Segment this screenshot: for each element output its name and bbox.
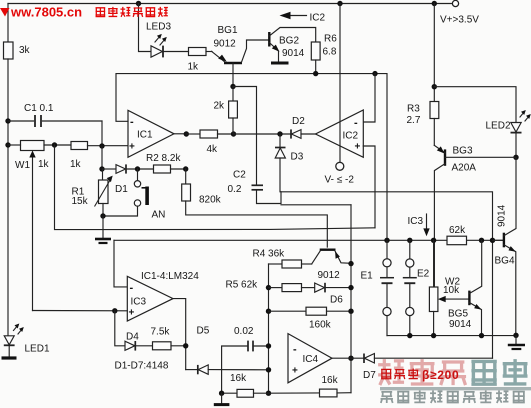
node 16k row ground bbox=[219, 391, 224, 396]
svg-text:+: + bbox=[129, 142, 135, 153]
resistor 2k bbox=[214, 87, 238, 135]
node ladder 311 bbox=[266, 309, 271, 314]
ground (LED1) bbox=[2, 356, 17, 359]
svg-text:3k: 3k bbox=[19, 45, 31, 56]
svg-text:2.7: 2.7 bbox=[407, 115, 421, 126]
node ladder IC4 plus bbox=[266, 367, 271, 372]
label D1-D7:4148 bbox=[115, 361, 169, 372]
node x8/W1 bbox=[5, 142, 10, 147]
svg-text:C2: C2 bbox=[233, 170, 246, 181]
svg-text:V- ≤ -2: V- ≤ -2 bbox=[325, 175, 355, 186]
transistor BG5 9014 bbox=[448, 240, 482, 335]
svg-text:160k: 160k bbox=[309, 320, 332, 331]
svg-text:E2: E2 bbox=[417, 269, 430, 280]
svg-text:W1: W1 bbox=[15, 160, 30, 171]
wire 820k column bbox=[185, 169, 187, 184]
node BG4 base wire bbox=[490, 238, 495, 243]
label IC2 arrow bbox=[280, 12, 326, 24]
wire mid rail y240 bbox=[114, 239, 504, 241]
wire x434 V+ to R3 bbox=[433, 4, 435, 102]
svg-text:+: + bbox=[355, 142, 361, 153]
wire IC2 plus input bbox=[363, 146, 375, 228]
op-amp IC4 bbox=[288, 334, 332, 383]
resistor R4 36k bbox=[253, 249, 312, 269]
label IC1-4:LM324 bbox=[141, 271, 199, 282]
transistor BG4 9014 bbox=[495, 157, 517, 335]
node R3 top / LED2 wire bbox=[432, 84, 437, 89]
node W2 top bbox=[431, 238, 436, 243]
node x8/C1 bbox=[5, 118, 10, 123]
transistor BG2 9014 bbox=[269, 28, 315, 64]
svg-text:IC1: IC1 bbox=[137, 130, 153, 141]
op-amp IC1 bbox=[128, 110, 174, 157]
node top rail junction IC2 V pin bbox=[337, 1, 342, 6]
resistor R 3k bbox=[4, 42, 31, 59]
resistor 16k right bbox=[269, 375, 352, 397]
node W1/1k junction bbox=[52, 142, 57, 147]
wire IC2 V pin vertical bbox=[339, 4, 341, 163]
node D1 row left bbox=[99, 166, 104, 171]
watermark big characters bbox=[378, 359, 466, 385]
ground (right rail) bbox=[508, 336, 525, 349]
svg-text:D4: D4 bbox=[126, 332, 139, 343]
svg-text:R2 8.2k: R2 8.2k bbox=[146, 153, 181, 164]
label IC3 arrow down bbox=[408, 214, 430, 236]
top V+ rail bbox=[8, 3, 455, 5]
svg-text:15k: 15k bbox=[72, 196, 89, 207]
node x351 D6 bbox=[348, 285, 353, 290]
node R1 bottom / ground bbox=[100, 213, 105, 218]
title www.7805.cn (red) bbox=[0, 5, 168, 20]
svg-text:IC2: IC2 bbox=[310, 13, 326, 24]
svg-text:9014: 9014 bbox=[449, 319, 472, 330]
svg-text:β≥200: β≥200 bbox=[422, 368, 459, 382]
node E1 top bbox=[384, 238, 389, 243]
resistor 16k left bbox=[230, 373, 269, 397]
svg-text:LED3: LED3 bbox=[146, 22, 171, 33]
node LED2/BG3 base bbox=[513, 155, 518, 160]
resistor R2 8.2k bbox=[146, 153, 186, 173]
node BG5 collector bbox=[479, 238, 484, 243]
wire C2 node to 9012 collector column bbox=[281, 204, 351, 206]
svg-text:D7: D7 bbox=[363, 370, 376, 381]
terminal V- bbox=[325, 162, 355, 185]
svg-text:IC3: IC3 bbox=[408, 216, 424, 227]
wire IC2 minus input bbox=[363, 74, 375, 122]
node R6 bottom bbox=[313, 71, 318, 76]
wire y240 left corner to IC3 minus bbox=[114, 240, 127, 287]
node IC1 plus / x102 bbox=[99, 143, 104, 148]
svg-text:D3: D3 bbox=[291, 152, 304, 163]
diode D5 bbox=[186, 326, 269, 375]
node IC4 output bbox=[348, 356, 353, 361]
node top rail junction R3 column bbox=[432, 1, 437, 6]
svg-text:R3: R3 bbox=[407, 104, 420, 115]
node 4k/2k bbox=[231, 131, 236, 136]
diode D1 bbox=[102, 164, 154, 195]
resistor R6 6.8 bbox=[311, 34, 337, 74]
node IC3 out / 7.5k bbox=[183, 343, 188, 348]
node AN top bbox=[135, 166, 140, 171]
wire 0.02 ground branch bbox=[222, 346, 248, 393]
label transistor beta>=200 (red) bbox=[381, 368, 459, 382]
wire W1 to 1k bbox=[44, 144, 71, 146]
svg-text:LED2: LED2 bbox=[486, 121, 511, 132]
ladder column x268 bbox=[268, 264, 270, 393]
svg-text:2k: 2k bbox=[214, 101, 226, 112]
resistor 62k (top) bbox=[447, 225, 467, 245]
node rail W2 bbox=[431, 333, 436, 338]
node IC2 minus column bbox=[372, 71, 377, 76]
svg-text:1k: 1k bbox=[38, 159, 50, 170]
resistor 160k bbox=[269, 307, 352, 330]
svg-text:0.02: 0.02 bbox=[234, 326, 254, 337]
wire IC1 minus input loop bbox=[116, 74, 387, 241]
svg-text:D5: D5 bbox=[197, 326, 210, 337]
resistor 1k (LED3) bbox=[188, 48, 213, 73]
wire D4 branch down bbox=[115, 311, 125, 346]
resistor 7.5k bbox=[151, 327, 186, 350]
capacitor C2 0.2 bbox=[228, 170, 282, 204]
resistor R1 15k adjustable bbox=[72, 169, 113, 216]
earphone E1 bbox=[361, 240, 395, 335]
resistor 1k (input) bbox=[70, 142, 88, 171]
bottom rail bbox=[387, 335, 516, 337]
wire D3/C2 node to BG4 base column bbox=[281, 192, 493, 358]
wire W1 row left bbox=[8, 144, 21, 146]
op-amp IC2 bbox=[316, 110, 364, 157]
svg-text:D1-D7:4148: D1-D7:4148 bbox=[115, 361, 169, 372]
svg-text:62k: 62k bbox=[449, 225, 466, 236]
svg-text:D1: D1 bbox=[115, 184, 128, 195]
svg-text:R4 36k: R4 36k bbox=[253, 249, 286, 260]
node x351 emitter bbox=[348, 261, 353, 266]
capacitor 0.02 bbox=[234, 326, 269, 351]
svg-text:IC2: IC2 bbox=[343, 131, 359, 142]
wire feedback rail y228 bbox=[55, 145, 376, 230]
node ladder 16k row bbox=[266, 391, 271, 396]
svg-text:16k: 16k bbox=[230, 373, 247, 384]
svg-text:IC4: IC4 bbox=[303, 354, 319, 365]
wire right ladder column x351 bbox=[350, 205, 352, 393]
terminal V+ bbox=[440, 0, 479, 25]
svg-text:-: - bbox=[293, 344, 297, 356]
diode D6 bbox=[315, 283, 351, 306]
wire IC4 output bbox=[332, 357, 364, 359]
svg-text:9012: 9012 bbox=[318, 270, 341, 281]
wire x102 down to D1 row bbox=[101, 146, 103, 169]
pushbutton AN bbox=[103, 169, 165, 221]
node ladder 288 bbox=[266, 285, 271, 290]
svg-text:R6: R6 bbox=[324, 34, 337, 45]
transistor BG3 A20A bbox=[434, 145, 516, 287]
resistor R3 2.7 bbox=[407, 102, 439, 146]
wire to LED2 bbox=[434, 87, 516, 123]
ground (16k row) bbox=[214, 393, 230, 404]
svg-text:+: + bbox=[129, 308, 135, 319]
svg-text:ww.7805.cn: ww.7805.cn bbox=[10, 5, 82, 20]
node R2/820k bbox=[183, 166, 188, 171]
svg-text:820k: 820k bbox=[199, 195, 222, 206]
node top rail junction LED3 bbox=[136, 1, 141, 6]
earphone E2 bbox=[403, 240, 430, 335]
wire W1 wiper to IC3 plus bbox=[33, 310, 128, 312]
svg-text:R5 62k: R5 62k bbox=[226, 280, 259, 291]
watermark underline bbox=[380, 387, 531, 390]
wire 16k feedback row bbox=[222, 392, 237, 394]
wire 4k node to D2 bbox=[234, 133, 292, 135]
wire BG4 base bbox=[493, 239, 504, 241]
node BG1 base/2k bbox=[230, 84, 235, 89]
svg-text:BG3: BG3 bbox=[453, 146, 473, 157]
svg-text:9014: 9014 bbox=[282, 48, 305, 59]
diode D7 bbox=[363, 354, 493, 382]
svg-text:9012: 9012 bbox=[214, 39, 237, 50]
capacitor C1 0.1 bbox=[8, 103, 102, 127]
svg-text:10k: 10k bbox=[443, 285, 460, 296]
svg-text:-: - bbox=[354, 117, 358, 129]
svg-text:BG5: BG5 bbox=[448, 309, 468, 320]
LED2 bbox=[486, 110, 531, 157]
svg-text:1k: 1k bbox=[70, 159, 82, 170]
transistor BG1 9012 bbox=[212, 25, 269, 87]
svg-text:IC1-4:LM324: IC1-4:LM324 bbox=[141, 271, 199, 282]
wire left column x8 top bbox=[7, 4, 9, 43]
potentiometer W2 10k bbox=[429, 240, 468, 335]
resistor 4k bbox=[186, 130, 234, 155]
wire IC1 output bbox=[174, 133, 186, 135]
node rail BG4 bbox=[513, 333, 518, 338]
svg-text:V+>3.5V: V+>3.5V bbox=[440, 15, 479, 26]
wire C1 to IC1+ corner bbox=[101, 121, 103, 147]
svg-text:IC3: IC3 bbox=[131, 297, 147, 308]
resistor R5 62k bbox=[226, 280, 315, 292]
transistor 9012 (mid) bbox=[312, 250, 351, 281]
svg-text:-: - bbox=[130, 282, 134, 294]
svg-text:+: + bbox=[292, 366, 298, 377]
potentiometer W1 1k bbox=[15, 141, 50, 311]
wire 1k to IC1 plus input bbox=[88, 145, 129, 147]
ground (R1) bbox=[95, 216, 111, 243]
node E2 top bbox=[407, 238, 412, 243]
svg-text:0.2: 0.2 bbox=[228, 184, 242, 195]
svg-text:6.8: 6.8 bbox=[323, 47, 337, 58]
node ladder IC4 minus bbox=[266, 343, 271, 348]
diode D4 bbox=[125, 332, 153, 351]
LED1 bbox=[4, 324, 50, 357]
LED3 bbox=[139, 4, 189, 58]
op-amp IC3 bbox=[127, 276, 173, 321]
svg-text:BG2: BG2 bbox=[279, 36, 299, 47]
svg-text:D6: D6 bbox=[330, 295, 343, 306]
node D2/D3 bbox=[277, 131, 282, 136]
svg-text:AN: AN bbox=[152, 210, 166, 221]
svg-text:A20A: A20A bbox=[452, 163, 477, 174]
svg-text:1k: 1k bbox=[188, 62, 200, 73]
diode D3 bbox=[275, 134, 304, 192]
svg-text:C1 0.1: C1 0.1 bbox=[24, 103, 54, 114]
wire IC3 output loop bbox=[173, 299, 186, 370]
svg-text:D2: D2 bbox=[292, 116, 305, 127]
wire left column x8 down to LED1 bbox=[7, 59, 9, 336]
svg-text:4k: 4k bbox=[207, 144, 219, 155]
svg-text:BG1: BG1 bbox=[218, 25, 238, 36]
node IC1 output bbox=[184, 131, 189, 136]
svg-text:7.5k: 7.5k bbox=[151, 327, 171, 338]
node x351 160k bbox=[348, 309, 353, 314]
svg-text:-: - bbox=[130, 116, 134, 128]
svg-text:LED1: LED1 bbox=[25, 344, 50, 355]
wire BG1 node to C2 column bbox=[233, 87, 257, 185]
node rail BG5 bbox=[479, 333, 484, 338]
watermark slogan line bbox=[381, 391, 525, 403]
svg-text:9014: 9014 bbox=[497, 204, 508, 227]
svg-text:16k: 16k bbox=[322, 375, 339, 386]
node rail E2 bbox=[407, 333, 412, 338]
node IC3 plus / D4 branch bbox=[112, 308, 117, 313]
resistor 820k bbox=[182, 184, 328, 247]
diode D2 bbox=[291, 116, 316, 139]
svg-text:E1: E1 bbox=[361, 271, 374, 282]
svg-text:BG4: BG4 bbox=[495, 256, 515, 267]
